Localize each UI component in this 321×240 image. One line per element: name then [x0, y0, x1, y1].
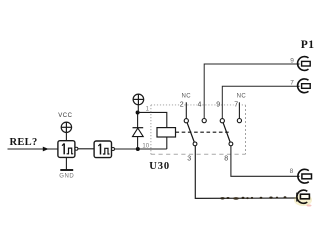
output bubble gate B [112, 148, 115, 151]
connector bottom red speck [307, 205, 312, 207]
relay dashed outline top edge segments [151, 104, 246, 106]
connector pin 8 symbol [298, 169, 312, 183]
switch arm right [223, 123, 230, 142]
connector pin 7 symbol [298, 79, 311, 93]
common contact circle right [229, 142, 233, 146]
relay dashed outline right edge [245, 105, 247, 154]
svg-text:VCC: VCC [58, 113, 72, 119]
svg-text:10: 10 [142, 144, 149, 150]
node junction top [136, 111, 140, 115]
buffer gate A (1-pulse shaper) [58, 141, 75, 158]
pin 9 wire to connector 7 [222, 86, 299, 118]
pin 7 stub wire [238, 102, 240, 118]
signal direction arrow [43, 147, 49, 152]
pin 3 wire smudges [220, 196, 286, 199]
relay dashed outline bottom edge [151, 153, 246, 155]
wire VCC to gate A [65, 133, 67, 141]
switch arm left [187, 123, 194, 142]
pin 7 contact circle [237, 119, 241, 123]
relay coil U30 [157, 128, 176, 137]
svg-text:3: 3 [187, 156, 191, 163]
pin 4 contact circle [202, 119, 206, 123]
svg-text:8: 8 [290, 168, 294, 175]
svg-text:NC: NC [237, 94, 247, 100]
wire VCC to top junction [137, 105, 139, 113]
wire coil to bottom wire [166, 137, 168, 149]
ground symbol [60, 169, 73, 171]
pin 4 wire to connector 9 [204, 64, 299, 118]
svg-text:GND: GND [59, 174, 74, 180]
relay dashed outline left edge [150, 105, 152, 154]
output bubble gate A [75, 147, 78, 150]
svg-text:2: 2 [180, 102, 184, 109]
wire gate B to relay coil [115, 148, 167, 150]
wire REL input [8, 148, 58, 150]
svg-text:P1: P1 [301, 39, 315, 51]
svg-text:9: 9 [290, 57, 294, 64]
pin 2 contact circle [184, 119, 188, 123]
wire top junction to coil [138, 112, 167, 127]
svg-text:7: 7 [290, 80, 294, 87]
svg-text:1: 1 [146, 107, 150, 113]
power VCC symbol (relay) [133, 94, 144, 105]
svg-text:9: 9 [216, 102, 220, 109]
svg-text:8: 8 [224, 156, 228, 163]
diode D flyback (cathode up) [133, 128, 144, 137]
pin 3 wire down and right [195, 146, 296, 199]
svg-text:U30: U30 [149, 161, 170, 172]
pin 2 stub wire [185, 102, 187, 118]
wire diode branch vertical [137, 113, 139, 150]
connector bottom tick [296, 193, 298, 202]
pin 9 contact circle [220, 119, 224, 123]
common contact circle left [193, 142, 197, 146]
wire gate A to gate B [78, 148, 94, 150]
connector pin 9 symbol [298, 57, 311, 71]
connector bottom yellow smear [294, 194, 312, 206]
pin 8 wire down and right [231, 146, 300, 177]
svg-text:4: 4 [198, 102, 202, 109]
node junction bottom [136, 147, 140, 151]
power VCC symbol (driver) [61, 122, 71, 132]
buffer gate B (1-pulse shaper) [94, 141, 111, 158]
svg-text:REL?: REL? [10, 137, 38, 148]
svg-text:NC: NC [182, 94, 192, 100]
svg-text:7: 7 [234, 102, 238, 109]
ground wire gate A [65, 157, 67, 169]
connector bottom symbol [297, 190, 309, 203]
mechanical linkage dashed [176, 131, 232, 133]
